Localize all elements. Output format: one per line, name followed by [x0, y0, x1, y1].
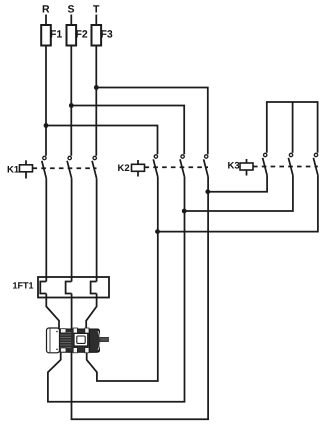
wire 1FT1 to motor U1 [46, 294, 59, 329]
wire K2 pole3 down to motor V2 [72, 177, 209, 419]
wire T top [95, 15, 97, 26]
wire K3 pole1 to K2 pole3 [208, 175, 267, 191]
motor cowl bolt top [56, 331, 58, 333]
motor fan cowl [47, 328, 60, 353]
node R junction dot [44, 123, 49, 128]
contactor K3 pole 3 contact [313, 153, 318, 175]
motor terminal box [74, 333, 88, 346]
contactor K2 linkage (dashed) [145, 166, 209, 168]
wire R fuse to K1 pole1 [45, 46, 47, 156]
motor foot top-left [73, 328, 77, 333]
wire K3 bus drop pole2 [292, 102, 294, 153]
contactor K3 actuator [240, 159, 253, 176]
contactor K3 pole 1 contact [263, 153, 268, 175]
contactor K1 pole 1 contact [42, 156, 47, 178]
wire K3 star bridge bus [267, 102, 318, 153]
motor end bell highlight [98, 331, 100, 350]
svg-text:1FT1: 1FT1 [13, 281, 34, 291]
contactor K1 linkage (dashed) [33, 167, 97, 169]
node S junction dot [69, 103, 74, 108]
node K2 pole2 junction dot [182, 209, 187, 214]
contactor K3 linkage (dashed) [253, 166, 318, 168]
wire 1FT1 to motor V1 [71, 294, 73, 329]
motor lifting lug top [61, 329, 67, 333]
wire S branch to K2 pole2 [71, 106, 184, 155]
svg-text:F1: F1 [50, 29, 62, 41]
motor body dark block [59, 329, 100, 352]
wire K1 pole2 to 1FT1 [71, 178, 73, 281]
contactor K1 actuator [20, 160, 33, 178]
motor M (top view) [47, 328, 109, 353]
contactor K2 actuator [132, 160, 145, 177]
wire K2 pole2 down to motor U2 [48, 177, 185, 402]
node T junction dot [94, 85, 99, 90]
fuse F2 [67, 25, 77, 46]
fuse F1 [41, 25, 51, 46]
contactor K2 pole 3 contact [204, 155, 209, 177]
wire K1 pole3 to 1FT1 [96, 178, 98, 281]
wire T branch to K2 pole3 [96, 88, 208, 155]
svg-text:K1: K1 [7, 165, 20, 176]
wire T fuse to K1 pole3 [95, 46, 97, 156]
motor drive end bell [90, 329, 100, 352]
node K2 pole3 junction dot [205, 189, 210, 194]
motor fins [59, 333, 98, 348]
svg-text:S: S [68, 4, 75, 16]
contactor K1 pole 2 contact [67, 156, 72, 178]
wire S fuse to K1 pole2 [70, 46, 72, 156]
motor terminal box inner [77, 336, 85, 343]
contactor K3 pole 2 contact [288, 153, 293, 175]
motor foot bottom-right [85, 348, 89, 353]
svg-text:K2: K2 [118, 163, 130, 174]
svg-text:T: T [93, 4, 100, 16]
contactor K2 pole 1 contact [153, 155, 158, 177]
svg-text:K3: K3 [228, 160, 240, 171]
svg-text:F2: F2 [76, 29, 88, 41]
wire K3 pole3 to K2 pole1 [158, 175, 318, 231]
svg-text:F3: F3 [101, 29, 113, 41]
overload relay heater phase 2 [66, 282, 72, 294]
motor lifting lug bottom [61, 348, 67, 352]
contactor K2 pole 2 contact [180, 155, 185, 177]
wire K2 pole1 down to motor W2 [87, 177, 158, 381]
overload relay heater phase 1 [40, 282, 46, 294]
wire S top [70, 15, 72, 26]
motor shaft [100, 337, 109, 341]
wire K1 pole1 to 1FT1 [45, 178, 47, 281]
svg-text:R: R [42, 4, 50, 16]
overload relay heater phase 3 [91, 282, 97, 294]
wire R top [45, 15, 47, 26]
wire 1FT1 to motor W1 [86, 294, 96, 329]
node K2 pole1 junction dot [155, 229, 160, 234]
overload relay 1FT1 box [38, 277, 109, 298]
motor cowl bolt bottom [56, 349, 58, 351]
motor foot bottom-left [73, 348, 77, 353]
wire K3 pole2 to K2 pole2 [184, 175, 293, 211]
fuse F3 [92, 25, 102, 46]
motor cowl seam [49, 329, 51, 353]
contactor K1 pole 3 contact [92, 156, 97, 178]
wire R branch to K2 pole1 [46, 126, 158, 155]
motor foot top-right [85, 328, 89, 333]
